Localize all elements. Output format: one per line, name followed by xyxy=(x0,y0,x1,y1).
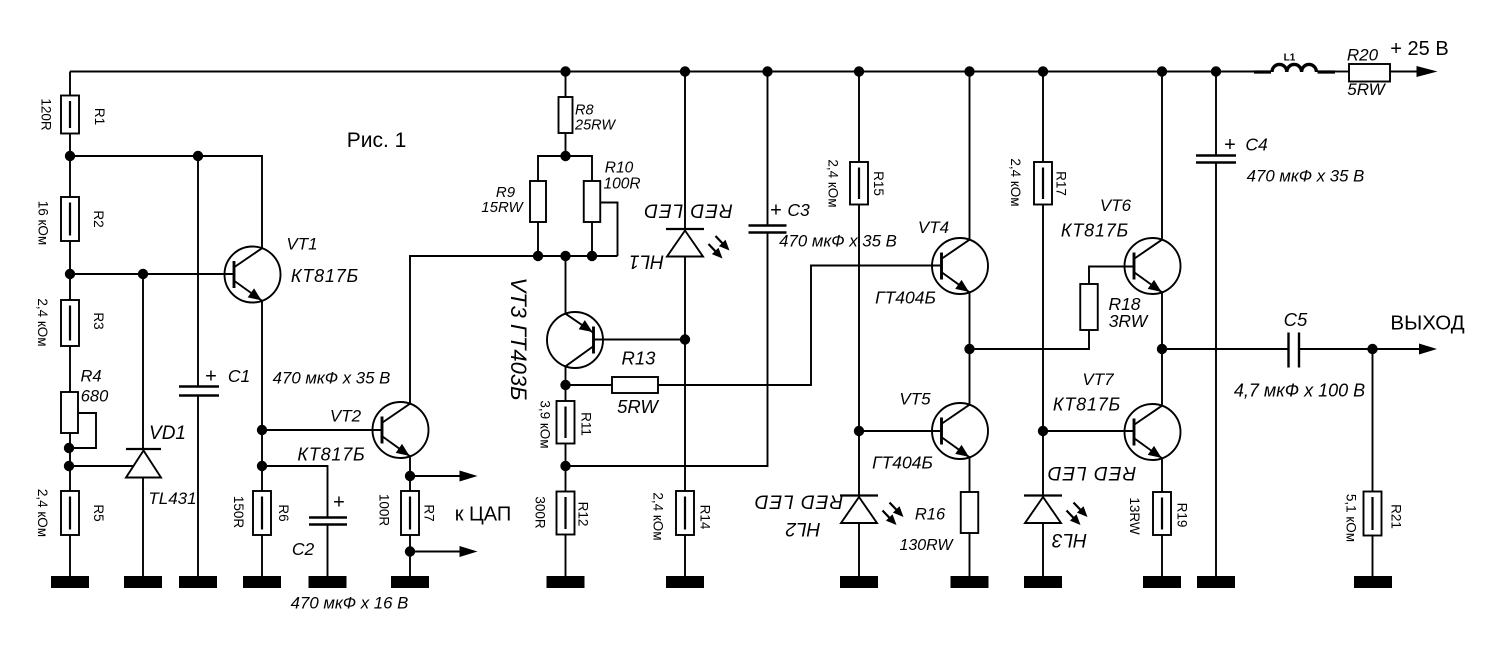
svg-text:R6: R6 xyxy=(276,504,291,521)
wire R9 bottom xyxy=(537,222,539,256)
svg-text:13RW: 13RW xyxy=(1127,497,1142,535)
transistor VT6 КТ817Б xyxy=(1125,238,1181,294)
resistor R4 xyxy=(61,392,78,433)
svg-text:470 мкФ х 35 В: 470 мкФ х 35 В xyxy=(273,369,391,388)
node R8 bottom xyxy=(560,151,570,161)
svg-text:2,4 кОм: 2,4 кОм xyxy=(35,298,50,346)
wire emitter link to R18 xyxy=(970,330,1090,349)
node VT7 base junction xyxy=(1038,426,1048,436)
resistor R16 xyxy=(961,492,979,533)
svg-text:R14: R14 xyxy=(697,505,712,530)
svg-text:VT7: VT7 xyxy=(1082,370,1114,389)
svg-text:RED LED: RED LED xyxy=(1047,462,1136,483)
wire к ЦАП lower arrow xyxy=(410,551,460,553)
wire rail to R1 xyxy=(69,72,71,96)
wire VD1 ref xyxy=(70,465,134,467)
svg-text:RED LED: RED LED xyxy=(754,491,843,512)
svg-text:R16: R16 xyxy=(915,506,946,524)
svg-text:300R: 300R xyxy=(532,496,547,529)
transistor VT2 КТ817Б xyxy=(373,402,429,458)
node VD1 top junction xyxy=(138,269,148,279)
svg-text:130RW: 130RW xyxy=(899,537,954,554)
wire VT7 base xyxy=(1043,430,1135,432)
wire node to R12 xyxy=(565,466,567,492)
ground R21 xyxy=(1354,576,1392,588)
wire R8 to node xyxy=(565,133,567,156)
ground HL2 xyxy=(840,576,878,588)
wire R5 to ground xyxy=(69,535,71,577)
resistor R3 xyxy=(61,300,79,346)
transistor VT3 ГТ403Б xyxy=(547,312,603,368)
ground R5 xyxy=(51,576,89,588)
wire VT2 emitter to R7 xyxy=(409,456,411,491)
svg-text:R1: R1 xyxy=(92,108,107,125)
wire VT1 base xyxy=(70,273,235,275)
svg-text:ГТ404Б: ГТ404Б xyxy=(872,453,933,473)
svg-text:3,9 кОм: 3,9 кОм xyxy=(537,400,552,448)
inductor L1 xyxy=(1254,70,1271,73)
svg-text:R15: R15 xyxy=(871,171,886,196)
svg-text:КТ817Б: КТ817Б xyxy=(291,266,359,286)
wire R17 to HL3 xyxy=(1042,205,1044,496)
node VD1 ref junction xyxy=(64,461,74,471)
node rail R15 xyxy=(854,66,864,76)
ground R6 xyxy=(243,576,281,588)
svg-text:R21: R21 xyxy=(1388,504,1403,529)
node VT4-VT5 junction xyxy=(964,344,974,354)
capacitor C4 xyxy=(1196,154,1236,156)
svg-text:КТ817Б: КТ817Б xyxy=(1061,221,1129,241)
wire HL2 to ground xyxy=(858,523,860,577)
ground R7 xyxy=(391,576,429,588)
svg-text:R7: R7 xyxy=(421,504,436,521)
led HL2 xyxy=(840,494,878,496)
svg-text:+ 25 В: + 25 В xyxy=(1390,38,1448,60)
transistor VT7 КТ817Б xyxy=(1125,404,1181,460)
svg-text:R20: R20 xyxy=(1347,46,1379,65)
node к ЦАП upper xyxy=(405,471,415,481)
svg-text:R4: R4 xyxy=(80,368,101,386)
svg-text:VD1: VD1 xyxy=(149,423,186,444)
svg-text:25RW: 25RW xyxy=(574,118,616,134)
resistor R9 xyxy=(530,181,546,222)
resistor R8 xyxy=(559,97,573,133)
svg-text:680: 680 xyxy=(81,388,109,406)
wire R3 to R4 xyxy=(69,346,71,392)
svg-text:120R: 120R xyxy=(38,98,53,131)
capacitor C3 xyxy=(749,224,787,226)
svg-text:3RW: 3RW xyxy=(1109,311,1149,331)
wire R14 to ground xyxy=(684,535,686,577)
transistor VT1 КТ817Б xyxy=(225,247,281,303)
transistor VT5 ГТ404Б xyxy=(932,403,988,459)
wire node to R13 xyxy=(566,384,613,386)
svg-text:4,7 мкФ х 100 В: 4,7 мкФ х 100 В xyxy=(1234,381,1365,401)
wire node to R14 xyxy=(684,340,686,492)
wire VT6 collector xyxy=(1161,72,1163,241)
wire VT3 collector xyxy=(565,366,567,385)
wire VT5 emitter to R16 xyxy=(969,457,971,492)
svg-text:HL1: HL1 xyxy=(629,251,664,272)
svg-text:R13: R13 xyxy=(622,348,657,369)
svg-text:ГТ404Б: ГТ404Б xyxy=(875,288,936,308)
svg-text:R10: R10 xyxy=(605,160,634,177)
svg-text:+: + xyxy=(205,366,217,388)
svg-text:TL431: TL431 xyxy=(148,489,196,508)
svg-text:RED LED: RED LED xyxy=(643,200,732,221)
wire R4 to R5 xyxy=(69,433,71,491)
wire R11 to node xyxy=(565,444,567,467)
svg-text:C4: C4 xyxy=(1245,135,1268,155)
ground VD1 xyxy=(124,576,162,588)
node C1 top junction xyxy=(193,151,203,161)
wire R6 to ground xyxy=(261,535,263,577)
ground R14 xyxy=(666,576,704,588)
svg-text:+: + xyxy=(770,200,782,222)
capacitor C2 xyxy=(309,516,347,518)
node R13 junction xyxy=(560,380,570,390)
svg-text:VT6: VT6 xyxy=(1100,196,1132,215)
node R10 bottom xyxy=(587,251,597,261)
svg-text:HL2: HL2 xyxy=(785,518,820,539)
arrow ВЫХОД xyxy=(1419,344,1437,355)
wire rail to R15 xyxy=(858,72,860,163)
resistor R5 xyxy=(61,491,79,535)
node R4 bottom junction xyxy=(64,443,74,453)
wire R16 to ground xyxy=(969,533,971,577)
resistor R21 xyxy=(1364,492,1382,536)
svg-text:ВЫХОД: ВЫХОД xyxy=(1390,312,1464,335)
svg-text:C5: C5 xyxy=(1284,309,1308,330)
resistor R18 xyxy=(1080,284,1098,330)
resistor R7 xyxy=(401,491,419,535)
svg-text:Рис. 1: Рис. 1 xyxy=(347,129,407,152)
transistor VT4 ГТ404Б xyxy=(932,238,988,294)
svg-text:C2: C2 xyxy=(292,539,315,559)
+25V output arrow xyxy=(1417,66,1438,77)
svg-text:R5: R5 xyxy=(91,504,106,521)
wire R20 to +25V arrow xyxy=(1390,71,1420,73)
svg-text:2,4 кОм: 2,4 кОм xyxy=(1008,158,1023,206)
resistor R11 xyxy=(557,401,575,444)
svg-text:R2: R2 xyxy=(91,210,106,227)
resistor R13 xyxy=(612,377,658,393)
wire HL1 to VT3 base node xyxy=(684,257,686,340)
svg-text:VT4: VT4 xyxy=(918,218,949,237)
wire output row xyxy=(1162,348,1289,350)
svg-text:5,1 кОм: 5,1 кОм xyxy=(1343,494,1358,542)
wire top supply rail xyxy=(70,71,1254,73)
node rail HL1 xyxy=(680,66,690,76)
wire VT2 collector xyxy=(409,256,411,404)
svg-text:5RW: 5RW xyxy=(617,396,659,417)
wire R19 to ground xyxy=(1161,535,1163,577)
svg-text:100R: 100R xyxy=(603,176,640,193)
wire VD1 cathode xyxy=(142,274,144,449)
resistor R14 xyxy=(676,491,694,535)
svg-text:C3: C3 xyxy=(787,200,810,220)
node R11 bottom xyxy=(560,461,570,471)
wire rail L1 to R20 xyxy=(1335,71,1349,73)
wire VT3 base xyxy=(594,339,686,341)
ground R12 xyxy=(547,576,585,588)
resistor R6 xyxy=(253,491,271,535)
svg-text:+: + xyxy=(333,492,345,514)
svg-text:100R: 100R xyxy=(376,494,391,527)
svg-text:VT1: VT1 xyxy=(286,235,317,254)
wire VT2 base xyxy=(262,429,383,431)
resistor R19 xyxy=(1153,492,1171,535)
svg-text:R8: R8 xyxy=(575,103,594,119)
svg-text:VT3 ГТ403Б: VT3 ГТ403Б xyxy=(506,278,531,401)
svg-text:HL3: HL3 xyxy=(1052,529,1087,550)
resistor R2 xyxy=(61,197,79,241)
svg-text:R3: R3 xyxy=(91,312,106,329)
wire C4 to ground xyxy=(1215,163,1217,578)
wire R10 bottom xyxy=(591,222,593,256)
svg-text:15RW: 15RW xyxy=(481,199,524,216)
node R9 bottom xyxy=(533,251,543,261)
wire R9 R10 top row xyxy=(538,156,592,181)
node rail C4 xyxy=(1211,66,1221,76)
arrow к ЦАП lower xyxy=(460,546,478,557)
led HL3 xyxy=(1024,494,1062,496)
wire VT3 emitter xyxy=(565,256,567,314)
svg-text:16 кОм: 16 кОм xyxy=(35,201,50,245)
node rail R8 xyxy=(560,66,570,76)
svg-text:R11: R11 xyxy=(578,412,593,436)
svg-text:2,4 кОм: 2,4 кОм xyxy=(35,489,50,537)
wire VT7 emitter to R19 xyxy=(1161,458,1163,492)
wire VT4 emitter to VT5 xyxy=(969,292,971,405)
resistor R17 xyxy=(1034,162,1052,205)
svg-text:R12: R12 xyxy=(575,502,590,527)
wire rail to R17 xyxy=(1042,72,1044,163)
svg-text:R19: R19 xyxy=(1174,503,1189,528)
svg-text:470 мкФ х 35 В: 470 мкФ х 35 В xyxy=(779,232,897,251)
wire C5 to output arrow xyxy=(1299,348,1420,350)
resistor R15 xyxy=(850,162,868,205)
ground HL3 xyxy=(1024,576,1062,588)
node rail R17 xyxy=(1038,66,1048,76)
svg-text:к ЦАП: к ЦАП xyxy=(455,504,512,526)
svg-text:C1: C1 xyxy=(228,366,250,386)
wire HL3 to ground xyxy=(1042,523,1044,577)
svg-text:2,4 кОм: 2,4 кОм xyxy=(650,492,665,540)
capacitor C5 xyxy=(1287,333,1289,368)
wire R12 to ground xyxy=(565,535,567,578)
ground R16 xyxy=(951,576,989,588)
resistor R12 xyxy=(557,492,575,535)
node R2-R3 base junction xyxy=(65,269,75,279)
svg-text:КТ817Б: КТ817Б xyxy=(1053,395,1121,415)
svg-text:150R: 150R xyxy=(231,496,246,529)
wire R10 tap xyxy=(601,203,618,257)
svg-text:L1: L1 xyxy=(1284,53,1296,64)
wire R13 to VT4 base xyxy=(658,266,942,386)
resistor R10 xyxy=(584,181,601,222)
node VT3 emitter junction xyxy=(560,251,570,261)
wire node to R11 xyxy=(565,385,567,401)
wire R2 span xyxy=(69,156,71,197)
wire C2 to ground xyxy=(327,525,329,578)
ground R19 xyxy=(1143,576,1181,588)
node output R21 xyxy=(1367,344,1377,354)
wire node to R21 xyxy=(1372,349,1374,492)
node R1-R2 xyxy=(65,151,75,161)
wire VT4 collector xyxy=(969,72,971,241)
wire R21 to ground xyxy=(1372,536,1374,578)
capacitor C1 xyxy=(179,385,219,387)
wire VT5 base xyxy=(859,430,942,432)
wire VT6 emitter to VT7 xyxy=(1161,292,1163,406)
wire bottom row to VT2 collector xyxy=(410,256,618,260)
resistor R20 xyxy=(1349,64,1390,82)
resistor R1 xyxy=(61,96,79,134)
wire rail to C3 xyxy=(767,72,769,226)
svg-text:VT5: VT5 xyxy=(899,390,931,409)
wire R1 to node xyxy=(69,134,71,157)
wire rail to R8 xyxy=(565,72,567,98)
arrow к ЦАП upper xyxy=(460,471,478,482)
wire R7 to ground xyxy=(409,535,411,577)
svg-text:+: + xyxy=(1224,134,1236,156)
wire к ЦАП upper arrow xyxy=(410,475,460,477)
wire VT1 emitter to R6 xyxy=(261,301,263,492)
node rail VT4 xyxy=(964,66,974,76)
wire node row to VT1 collector xyxy=(70,156,262,249)
wire to C2 xyxy=(262,466,328,517)
wire C1 top xyxy=(197,156,199,386)
wire R2 to R3 xyxy=(69,241,71,300)
wire C1 to ground xyxy=(197,396,199,578)
ground C4 xyxy=(1197,576,1235,588)
ground C1 xyxy=(179,576,217,588)
wire C3 to R11 node xyxy=(566,233,768,467)
wire R4 tap xyxy=(70,413,96,448)
wire rail to C4 xyxy=(1215,72,1217,156)
led HL1 xyxy=(666,228,704,230)
svg-text:470 мкФ х 16 В: 470 мкФ х 16 В xyxy=(291,594,409,613)
node к ЦАП lower xyxy=(405,546,415,556)
node rail VT6 xyxy=(1157,66,1167,76)
wire VD1 anode to ground xyxy=(142,478,144,578)
svg-text:VT2: VT2 xyxy=(330,407,362,426)
svg-text:470 мкФ х 35 В: 470 мкФ х 35 В xyxy=(1247,167,1365,186)
node output junction xyxy=(1157,344,1167,354)
wire R15 to HL2 xyxy=(858,205,860,496)
svg-text:2,4 кОм: 2,4 кОм xyxy=(825,159,840,207)
node C2 junction xyxy=(257,461,267,471)
svg-text:КТ817Б: КТ817Б xyxy=(297,445,365,465)
wire R18 top to VT6 base xyxy=(1089,267,1135,285)
svg-text:5RW: 5RW xyxy=(1347,80,1386,99)
ground C2 xyxy=(309,576,347,588)
diode VD1 TL431 xyxy=(126,448,161,450)
svg-text:R17: R17 xyxy=(1053,171,1068,196)
node VT5 base junction xyxy=(854,426,864,436)
wire rail to HL1 xyxy=(684,72,686,230)
node VT3 base junction xyxy=(680,334,690,344)
node VT2 base junction xyxy=(257,425,267,435)
node rail C3 xyxy=(762,66,772,76)
